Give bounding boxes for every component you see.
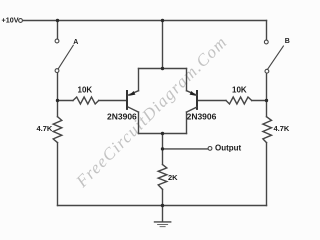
wire Q1 collector vertical [138, 112, 140, 133]
wire node B1 to resistor 10K right [252, 100, 267, 102]
wire node A1 down to 4.7K left [57, 101, 59, 117]
svg-text:10K: 10K [78, 86, 93, 95]
switch B bottom terminal [265, 69, 269, 73]
wire Q2 collector vertical [186, 112, 188, 133]
transistor Q1 2N3906 [127, 91, 139, 112]
svg-text:A: A [73, 39, 78, 46]
svg-text:2N3906: 2N3906 [187, 111, 217, 121]
svg-text:Output: Output [215, 143, 242, 152]
svg-text:+10V: +10V [2, 15, 19, 24]
svg-text:4.7K: 4.7K [37, 124, 53, 133]
node A1 junction [56, 99, 59, 102]
ground [155, 206, 171, 227]
node output junction [161, 147, 164, 150]
wire 4.7K right to bottom rail [266, 143, 268, 206]
wire Q1 emitter vertical [138, 69, 140, 91]
switch A bottom terminal [55, 69, 59, 73]
node rail-center junction [161, 19, 164, 22]
wire output node to 2K [162, 149, 164, 165]
wire rail drop to switch A [57, 21, 59, 39]
wire collector junction down to output node [162, 134, 164, 149]
resistor R1 10K left [73, 97, 99, 104]
node B1 junction [265, 99, 268, 102]
transistor Q2 2N3906 [187, 91, 198, 112]
wire 4.7K left to bottom rail [57, 143, 59, 206]
wire common collector horizontal [139, 133, 187, 135]
terminal Output circle [208, 147, 212, 151]
terminal +10V circle [19, 19, 23, 23]
resistor R3 4.7K left [53, 117, 62, 143]
svg-text:2N3906: 2N3906 [107, 111, 137, 121]
wire switch A bottom to node A1 [57, 73, 59, 101]
node rail-A junction [56, 19, 59, 22]
wire +10V rail [23, 20, 267, 22]
svg-text:10K: 10K [232, 86, 247, 95]
node emitter junction [161, 67, 164, 70]
wire 10K right to Q2 base [198, 100, 226, 102]
svg-text:2K: 2K [168, 173, 178, 182]
wire rail corner down to switch B [266, 21, 268, 40]
wire node A1 to resistor 10K left [58, 100, 74, 102]
node collector junction [161, 132, 164, 135]
wire rail drop to emitter junction [162, 21, 164, 69]
svg-text:B: B [285, 38, 290, 45]
wire switch B bottom to node B1 [266, 73, 268, 100]
wire 10K left to Q1 base [99, 100, 127, 102]
switch B blade [268, 46, 284, 69]
resistor R2 10K right [226, 97, 252, 104]
wire Q2 emitter vertical [186, 69, 188, 91]
switch A blade [58, 45, 73, 68]
resistor R5 2K [158, 165, 167, 190]
switch A top terminal [55, 39, 59, 43]
resistor R4 4.7K right [263, 117, 272, 143]
svg-text:4.7K: 4.7K [274, 124, 290, 133]
switch B top terminal [264, 40, 268, 44]
wire bottom ground rail [58, 205, 267, 207]
node ground junction [161, 204, 164, 207]
wire common emitter horizontal [139, 68, 187, 70]
wire node B1 down to 4.7K right [266, 101, 268, 117]
wire 2K to bottom rail [162, 189, 164, 205]
wire output tap [163, 148, 209, 150]
